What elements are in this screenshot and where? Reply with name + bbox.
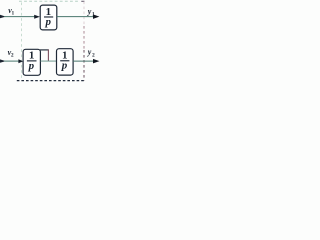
- arrowhead into U2: [18, 59, 23, 63]
- wire v1 to U1: [4, 16, 35, 18]
- integrator block U1 (1/p): [40, 5, 57, 30]
- label v1: [8, 6, 14, 16]
- svg-text:p: p: [61, 60, 68, 72]
- background: [0, 0, 100, 83]
- svg-text:1: 1: [12, 10, 15, 16]
- dashed boundary right edge lower: [83, 50, 85, 81]
- dashed boundary right edge upper: [83, 2, 85, 27]
- dashed boundary right edge middle: [83, 26, 85, 50]
- dashed boundary top-right corner dash: [81, 0, 84, 2]
- input arrowhead v1 at left edge: [0, 15, 6, 18]
- stub wire over U2 top edge: [40, 49, 49, 51]
- dashed boundary left edge: [21, 3, 23, 80]
- wire U2 to U3: [40, 60, 56, 62]
- svg-text:2: 2: [11, 53, 14, 59]
- wire U1 to output y1: [57, 16, 95, 18]
- svg-text:1: 1: [92, 12, 95, 18]
- dashed boundary top edge: [19, 0, 80, 2]
- arrowhead into U1: [34, 15, 40, 19]
- integrator block U3 (1/p): [57, 49, 74, 75]
- svg-text:p: p: [44, 16, 51, 28]
- wire v2 to U2: [4, 60, 19, 62]
- label v2: [8, 48, 14, 59]
- vertical stub wire down to node between U2 and U3: [47, 50, 49, 62]
- svg-text:p: p: [28, 60, 35, 72]
- output arrowhead y2: [93, 59, 99, 64]
- integrator block U2 (1/p): [23, 49, 40, 75]
- dashed boundary bottom edge: [17, 80, 85, 82]
- label y1: [87, 7, 95, 17]
- svg-text:2: 2: [92, 52, 95, 58]
- output arrowhead y1: [93, 14, 99, 19]
- input arrowhead v2 at left edge: [0, 59, 6, 62]
- label y2: [87, 48, 95, 59]
- wire U3 to output y2: [73, 60, 94, 62]
